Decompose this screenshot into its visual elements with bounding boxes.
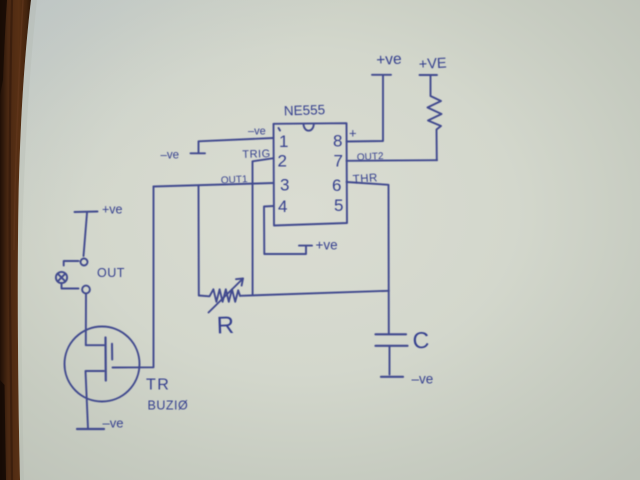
svg-text:OUT2: OUT2	[357, 151, 385, 163]
svg-text:8: 8	[333, 132, 342, 151]
svg-text:THR: THR	[352, 172, 378, 186]
svg-text:–ve: –ve	[161, 150, 180, 162]
svg-text:C: C	[412, 327, 430, 354]
svg-text:6: 6	[332, 176, 341, 195]
svg-text:2: 2	[278, 152, 287, 171]
svg-text:BUZIØ: BUZIØ	[148, 399, 189, 413]
svg-text:4: 4	[278, 197, 287, 216]
svg-text:OUT: OUT	[97, 266, 125, 280]
svg-text:+ve: +ve	[316, 238, 338, 253]
svg-text:+VE: +VE	[418, 56, 447, 73]
svg-text:R: R	[216, 312, 234, 340]
svg-text:TR: TR	[146, 377, 170, 394]
svg-text:–ve: –ve	[248, 126, 266, 138]
svg-text:+: +	[349, 126, 357, 141]
svg-text:+ve: +ve	[376, 51, 402, 69]
svg-text:1: 1	[279, 132, 288, 151]
svg-text:7: 7	[334, 152, 343, 171]
svg-text:–ve: –ve	[103, 416, 124, 431]
svg-text:NE555: NE555	[284, 102, 326, 118]
svg-text:TRIG: TRIG	[242, 148, 271, 161]
svg-text:5: 5	[334, 196, 343, 215]
svg-text:OUT1: OUT1	[221, 174, 249, 186]
svg-text:3: 3	[280, 176, 289, 195]
svg-text:+ve: +ve	[102, 203, 123, 217]
svg-text:–ve: –ve	[412, 372, 434, 387]
